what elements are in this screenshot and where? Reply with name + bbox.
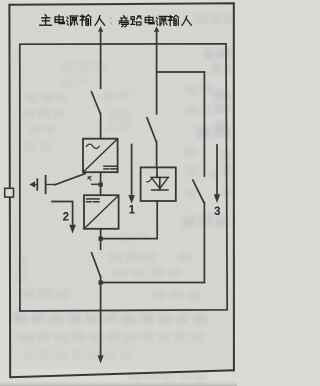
输 [80, 15, 91, 26]
title: 旁路电源输入 (drawn glyphs) [119, 15, 191, 27]
flow arrow 2 [52, 202, 75, 233]
title: 主电源输入 (drawn glyphs) [40, 15, 105, 26]
main input line [99, 27, 103, 88]
wire: right branch down [203, 72, 205, 176]
battery BT1 [30, 176, 55, 193]
handle square on left frame [5, 188, 14, 197]
switch S1 (main input) [92, 92, 101, 139]
inner frame [20, 44, 227, 311]
junction node (battery tap) [99, 182, 103, 186]
inverter U2 [84, 195, 119, 229]
paper background [0, 0, 237, 386]
bypass input line [155, 27, 159, 114]
路 [131, 16, 142, 25]
源 [156, 16, 167, 25]
output arrowhead [98, 356, 103, 363]
wire rectifier to inverter [100, 172, 102, 195]
static bypass thyristor U3 [141, 167, 176, 238]
flow arrow 3 [214, 145, 219, 202]
主 [40, 15, 52, 26]
diagram strokes [5, 3, 234, 377]
junction node (output tie) [99, 280, 103, 284]
源 [67, 16, 79, 26]
rectifier U1 [83, 139, 118, 173]
输 [168, 15, 179, 26]
label 3 [214, 206, 220, 218]
scan grain [0, 0, 237, 386]
switch S4 (output) [92, 253, 101, 357]
label 1 [129, 205, 136, 217]
separator mark [110, 17, 112, 24]
switch S2 (bypass) [147, 118, 157, 168]
outer frame [9, 3, 234, 377]
wire inverter output junction [101, 229, 158, 249]
switch S3 (battery) [55, 174, 101, 185]
flow arrow 1 [129, 145, 134, 203]
旁 [119, 16, 129, 27]
电 [145, 16, 154, 24]
switch S5 (right branch) [193, 180, 205, 283]
junction node (inverter/thyristor) [99, 237, 103, 241]
电 [55, 15, 64, 24]
入 [182, 16, 192, 26]
wire: bypass branch to right [157, 71, 205, 73]
wire: right branch tie to output [101, 282, 205, 284]
ghost bleed-through text [12, 13, 232, 381]
入 [95, 15, 105, 25]
label 2 [63, 212, 69, 224]
